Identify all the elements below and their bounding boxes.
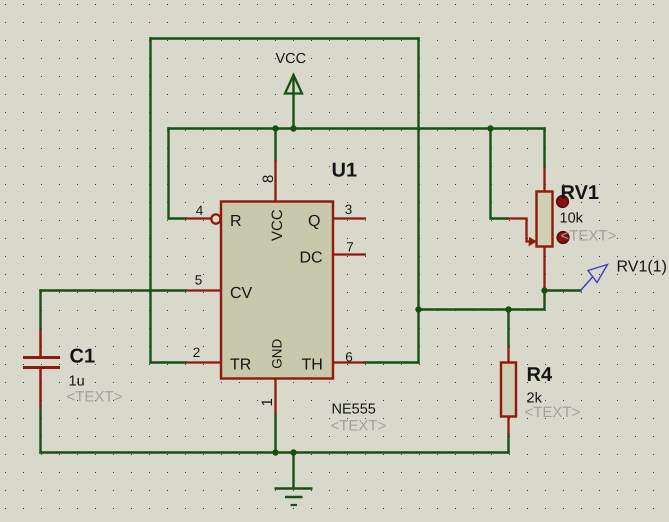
svg-text:1: 1 [259, 398, 276, 406]
junction node wiper branch [487, 125, 493, 131]
wire pin1 GND drop green part [274, 415, 276, 453]
pin 2 stub [186, 361, 221, 363]
svg-text:10k: 10k [560, 211, 584, 227]
svg-text:3: 3 [345, 202, 353, 217]
wire TR pin2 horizontal [151, 361, 186, 363]
pin 1 stub [274, 379, 276, 415]
wiper arrow of RV1 [508, 219, 531, 242]
svg-text:VCC: VCC [269, 209, 286, 241]
pin 8 stub [274, 161, 276, 202]
svg-text:R: R [230, 213, 242, 230]
svg-text:5: 5 [195, 273, 203, 288]
wire right outer vertical to pin6 TH [417, 39, 419, 363]
wire node to R4 top [507, 310, 509, 347]
wire top rail from left loop to right loop [151, 37, 419, 39]
svg-text:Q: Q [308, 213, 320, 230]
svg-text:R4: R4 [527, 364, 553, 386]
potentiometer RV1 [508, 168, 553, 289]
svg-text:U1: U1 [332, 160, 358, 182]
resistor R4 [501, 347, 516, 435]
svg-text:1u: 1u [69, 374, 85, 390]
junction node VCC stem [290, 125, 296, 131]
wire VCC symbol stem [292, 76, 294, 129]
svg-text:<TEXT>: <TEXT> [331, 418, 387, 435]
wire RV1 top branch [543, 129, 545, 168]
wire R4 bottom drop [507, 435, 509, 453]
wire C1 left vertical bottom [39, 408, 41, 453]
svg-text:2: 2 [193, 345, 201, 360]
svg-text:C1: C1 [70, 346, 96, 368]
svg-text:<TEXT>: <TEXT> [67, 389, 123, 406]
power symbol VCC [285, 75, 302, 94]
svg-text:<TEXT>: <TEXT> [561, 228, 617, 245]
ground [275, 453, 313, 506]
svg-text:7: 7 [346, 240, 354, 255]
wire RV1 wiper branch [491, 129, 508, 219]
svg-text:4: 4 [196, 203, 204, 218]
pin 4 stub with bubble [186, 214, 221, 223]
wire RV1 bottom node to terminal [545, 289, 581, 291]
svg-text:DC: DC [300, 250, 323, 267]
wire TH pin6 horizontal [365, 361, 419, 363]
svg-text:CV: CV [230, 285, 253, 302]
svg-text:TR: TR [230, 357, 251, 374]
pin 5 stub [186, 289, 221, 291]
RV1 marker dot top [557, 196, 569, 208]
wire bottom ground rail [41, 451, 509, 453]
pin 3 stub [334, 217, 367, 219]
RV1 marker dot bottom [557, 232, 569, 244]
svg-text:GND: GND [270, 339, 285, 369]
wire left inner vertical to pin4 R [169, 129, 186, 219]
wire C1 left vertical top [39, 291, 41, 330]
svg-text:<TEXT>: <TEXT> [525, 404, 581, 421]
svg-text:VCC: VCC [276, 51, 307, 67]
junction node RV1 bottom [541, 287, 547, 293]
svg-text:8: 8 [260, 175, 277, 183]
wire RV1 bottom to node [419, 289, 545, 310]
capacitor C1 [23, 330, 60, 408]
wire pin8 VCC drop green part [274, 129, 276, 161]
wire VCC mid rail [169, 127, 545, 129]
wire left outer vertical to pin2 TR [149, 39, 151, 363]
junction node R4 top [505, 306, 511, 312]
svg-text:NE555: NE555 [332, 402, 376, 418]
terminal RV1(1) [581, 265, 608, 291]
pin 7 stub [334, 253, 367, 255]
junction node pin8/VCC rail [272, 125, 278, 131]
svg-text:RV1: RV1 [561, 182, 600, 204]
pin 6 stub [334, 361, 365, 363]
wire C1 top branch CV rail [41, 289, 186, 291]
junction node pin1 bottom rail [272, 449, 278, 455]
op-amp U1 body NE555 [221, 202, 333, 379]
svg-text:TH: TH [302, 357, 323, 374]
junction node TH column [415, 306, 421, 312]
junction node ground stem [290, 449, 296, 455]
svg-text:RV1(1): RV1(1) [617, 259, 667, 276]
svg-text:6: 6 [345, 350, 353, 365]
